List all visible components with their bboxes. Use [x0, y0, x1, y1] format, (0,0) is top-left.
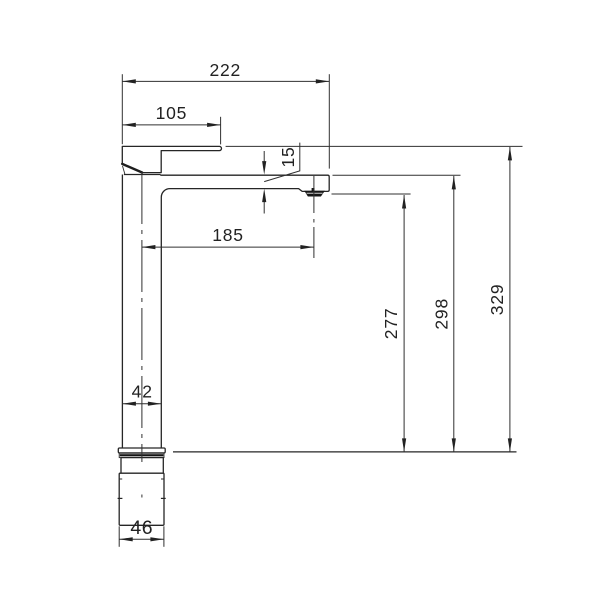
dim 15 lower line with up arrow — [263, 197, 265, 214]
dim 298 top arrow — [452, 176, 456, 190]
dim 222 right arrow — [316, 79, 330, 83]
dim 105 right arrow — [207, 123, 221, 127]
dim 42 right arrow — [148, 402, 162, 406]
dim 329 line — [509, 147, 511, 452]
dim 15 leader — [264, 143, 300, 182]
dim 277 bottom arrow — [402, 438, 406, 452]
shank upper section — [121, 458, 163, 474]
dim 46 extension line right — [163, 526, 165, 547]
svg-text:46: 46 — [130, 517, 153, 539]
svg-text:277: 277 — [381, 308, 401, 340]
dim 222 extension line left — [121, 74, 123, 144]
dim 185 line — [142, 246, 314, 248]
dim 105 line — [122, 124, 220, 126]
groove notch left — [120, 478, 123, 480]
spout arm and column right edge — [160, 175, 329, 448]
dim 329 top arrow — [508, 147, 512, 161]
thread tick right — [161, 497, 166, 499]
dim 298 bottom arrow — [452, 438, 456, 452]
gasket under flange — [119, 453, 164, 457]
dim 42 line — [122, 403, 161, 405]
dim 329 bottom arrow — [508, 438, 512, 452]
dim 222 extension line right — [328, 74, 330, 168]
dim 46 left arrow — [119, 537, 133, 541]
svg-text:222: 222 — [209, 60, 241, 80]
dim 277 line — [403, 195, 405, 452]
svg-text:15: 15 — [278, 146, 298, 167]
dim 277 extension line — [332, 193, 411, 195]
aerator at spout outlet — [305, 191, 324, 196]
dim 46 right arrow — [150, 537, 164, 541]
body top seam line — [124, 174, 161, 176]
faucet lever handle outline — [122, 146, 221, 172]
dim 105 left arrow — [122, 123, 136, 127]
mounting surface line — [173, 451, 517, 453]
dim 222 line — [122, 80, 329, 82]
lower shank 46mm section — [119, 473, 164, 525]
lever tip thick chamfer edge — [122, 164, 142, 173]
dim 185 right arrow — [300, 245, 314, 249]
mounting flange — [118, 448, 165, 453]
thread tick left — [118, 497, 123, 499]
dim 298 line — [453, 176, 455, 452]
dim 185 left arrow — [142, 245, 156, 249]
column left edge — [121, 175, 123, 449]
lever tip thin inner chamfer edge — [123, 166, 125, 174]
outlet center line (dash-dot) — [313, 176, 315, 213]
dim 222 left arrow — [122, 79, 136, 83]
dim 277 top arrow — [402, 195, 406, 209]
svg-text:298: 298 — [432, 298, 452, 330]
column center line (dash-dot) — [141, 172, 143, 462]
dim 105 extension line right — [220, 117, 222, 145]
dim 15 upper line with down arrow — [263, 151, 265, 166]
dim 298 extension line — [333, 174, 461, 176]
svg-text:185: 185 — [212, 225, 244, 245]
dim 329 extension line — [226, 145, 523, 147]
groove notch right — [161, 478, 164, 480]
dim 46 extension line left — [118, 526, 120, 547]
dim 46 line — [119, 538, 164, 540]
svg-text:329: 329 — [487, 284, 507, 316]
svg-text:105: 105 — [156, 103, 188, 123]
svg-text:42: 42 — [132, 382, 153, 402]
dim 42 left arrow — [122, 402, 135, 406]
